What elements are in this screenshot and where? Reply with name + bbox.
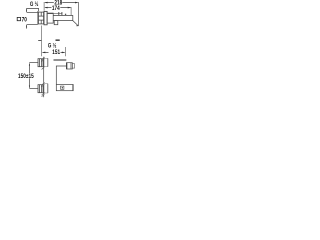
dimension 151 label	[52, 49, 60, 56]
lever tick 1	[58, 12, 60, 15]
svg-text:150±15: 150±15	[18, 74, 34, 81]
lever tick 2	[61, 12, 63, 15]
detail: mousseur square	[61, 86, 64, 89]
diverter knob under spout	[54, 21, 58, 25]
spout (side view)	[53, 16, 73, 21]
dimension 151 line	[43, 51, 65, 53]
lever plate	[48, 13, 63, 15]
dimension 174 line	[45, 7, 70, 9]
extension line right (218)	[77, 2, 79, 26]
top view: lower union centerline	[29, 88, 38, 90]
dimension 174 label	[52, 5, 61, 12]
escutcheon slab (side view)	[44, 11, 47, 24]
body (side view)	[47, 13, 53, 23]
svg-text:70: 70	[22, 17, 27, 24]
dimension 218 label	[54, 0, 62, 7]
spout tip bottom tick	[76, 25, 78, 27]
G 1/2 bracket	[27, 9, 39, 13]
detail: spout bar end cap	[72, 85, 74, 91]
extension line left (body front plane)	[43, 2, 45, 11]
151 right extension line	[65, 47, 67, 56]
through-wall fitting lower	[44, 84, 48, 93]
70 bottom extension line	[27, 24, 37, 26]
escutcheon square label 70	[17, 17, 27, 24]
wall line (side view)	[37, 11, 39, 25]
detail: spout bar	[56, 85, 73, 91]
dimension 151 arrowheads	[42, 52, 65, 54]
detail: lower pipe line	[56, 66, 66, 85]
shower outlet centerline / 151 left extension	[41, 26, 43, 57]
leader dash right	[56, 40, 60, 41]
union nut (side view)	[39, 12, 44, 24]
extension line mid (spout tip 174)	[70, 7, 72, 15]
dimension 150 arrowheads	[29, 63, 30, 89]
dimension 174 arrowheads	[44, 7, 71, 9]
wall hatch upper union	[42, 57, 45, 70]
70 arrowheads	[26, 10, 27, 28]
svg-text:174: 174	[52, 5, 61, 12]
wall line (top view)	[43, 57, 45, 97]
top view: upper union block	[38, 59, 43, 67]
spout tip diagonal	[73, 21, 78, 26]
through-wall fitting upper	[44, 58, 48, 66]
lever dot	[65, 14, 66, 15]
wall hatch lower union	[42, 82, 45, 97]
detail: pipe stub right	[72, 64, 74, 68]
detail: upper pipe line	[54, 59, 67, 61]
thread label G 1/2 lower	[48, 42, 57, 50]
top view: upper union centerline	[29, 62, 38, 64]
dimension 150 line upper	[28, 64, 30, 74]
svg-text:G ½: G ½	[30, 0, 39, 8]
70 bottom arrow shaft	[26, 25, 28, 29]
svg-text:151: 151	[52, 49, 60, 56]
detail: mousseur dot	[62, 87, 63, 88]
thread label G 1/2 top	[30, 0, 39, 8]
70 top extension line	[27, 11, 38, 13]
top view: lower union block	[38, 85, 43, 93]
dimension 218 line	[45, 2, 77, 4]
dimension 218 arrowheads	[44, 2, 78, 4]
detail: union nut	[66, 63, 72, 69]
leader dash left	[38, 40, 41, 42]
dimension 150±15 label	[18, 74, 34, 81]
dimension 150 line lower	[28, 78, 30, 88]
